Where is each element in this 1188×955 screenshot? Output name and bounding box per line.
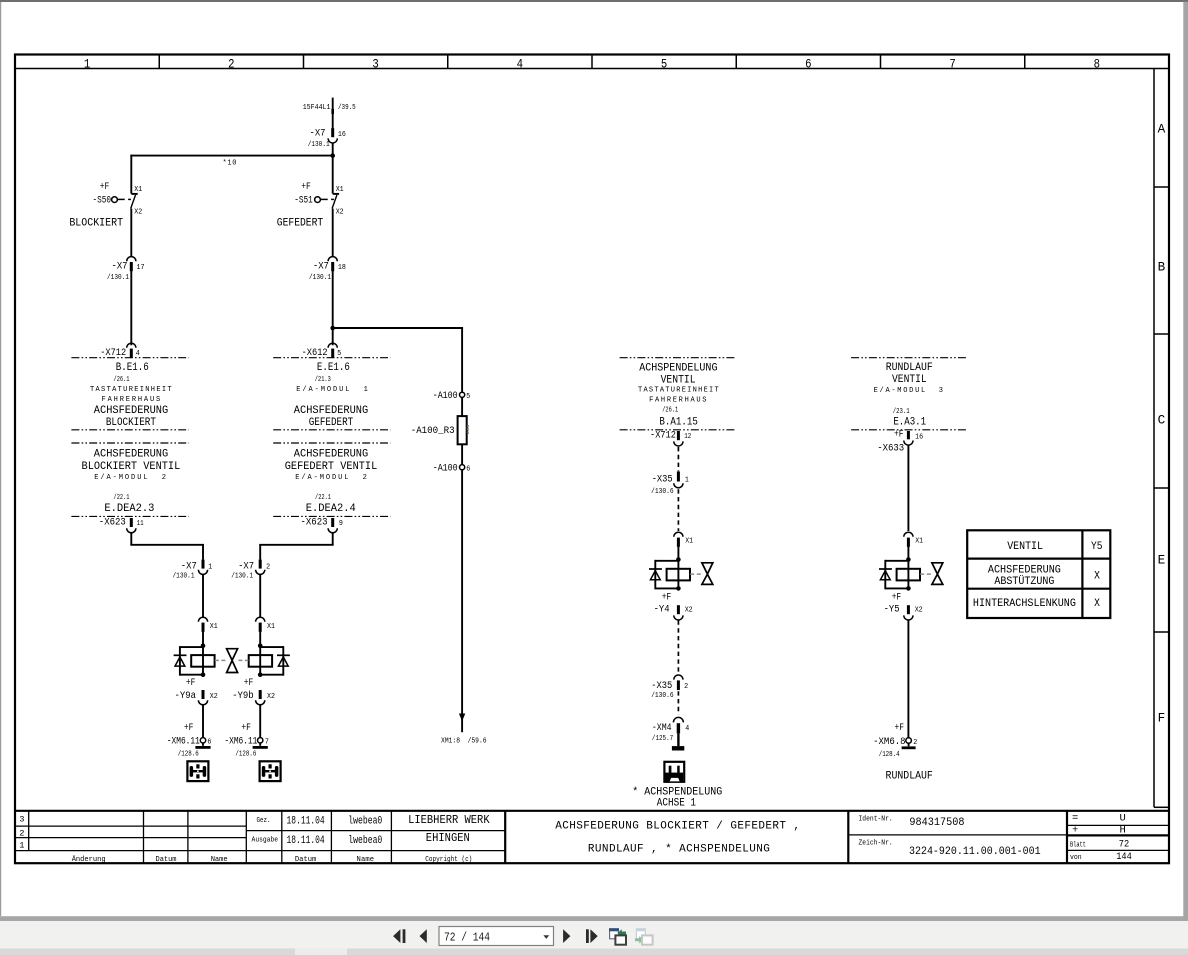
svg-text:-X35: -X35 [651,680,672,692]
viewer left edge line [0,2,1,916]
svg-text:18.11.04: 18.11.04 [287,835,325,847]
svg-text:-X633: -X633 [877,443,904,455]
svg-text:*10: *10 [223,159,237,167]
svg-text:Änderung: Änderung [72,855,106,864]
svg-text:+F: +F [895,722,905,734]
page number box 72 / 144 [439,927,554,946]
axle symbol under -XM6.11:7 [260,761,281,781]
svg-text:-S50: -S50 [93,195,112,207]
device terminal -A100:5 [433,390,471,402]
svg-text:-X7: -X7 [112,260,128,272]
svg-text:+F: +F [301,181,311,193]
svg-text:XM1:8 /59.6: XM1:8 /59.6 [441,737,487,745]
svg-text:12: 12 [684,433,691,441]
svg-text:ACHSFEDERUNG: ACHSFEDERUNG [94,448,168,460]
svg-text:LIEBHERR WERK: LIEBHERR WERK [408,814,490,827]
viewer toolbar background [0,921,1188,949]
svg-text:5: 5 [337,350,341,358]
company name LIEBHERR WERK EHINGEN [408,814,490,845]
valve coil -Y9a with suppressor diode [174,644,215,678]
svg-text:B.A1.15: B.A1.15 [659,416,698,428]
svg-text:+F: +F [186,677,196,689]
svg-text:U: U [1119,813,1125,825]
svg-text:Ausgabe: Ausgabe [252,837,279,845]
svg-text:Datum: Datum [156,856,177,864]
dashed wire -X712:12 to -X35:1 [677,447,679,471]
svg-text:+F: +F [892,592,902,604]
module boundary dash-dot line row 1 [71,357,967,359]
module E.A3.1 RUNDLAUF text block [874,362,943,428]
svg-text:X2: X2 [685,607,693,615]
svg-text:RUNDLAUF , * ACHSPENDELUNG: RUNDLAUF , * ACHSPENDELUNG [588,844,770,856]
svg-text:EHINGEN: EHINGEN [426,832,470,845]
valve coil -Y5 with suppressor diode [879,557,920,591]
top ruler column numbers 1-8 [84,56,1100,71]
svg-text:-X35: -X35 [652,474,673,486]
svg-text:Gez.: Gez. [257,817,271,825]
svg-text:E.E1.6: E.E1.6 [317,362,350,374]
svg-text:+F: +F [894,428,904,440]
svg-text:2: 2 [228,56,234,71]
svg-text:Name: Name [211,856,228,864]
valve -Y5 X2 terminal [904,605,923,620]
switch -S50 (pushbutton contact) [69,181,142,230]
connector -X7 pin 17 [107,257,145,282]
svg-text:+F: +F [100,181,110,193]
svg-text:-Y9a: -Y9a [175,690,197,702]
svg-text:X1: X1 [915,537,923,545]
junction node at bus split [330,153,335,158]
svg-text:-X612: -X612 [302,347,328,359]
net label 15F44L1 /39.5 [303,104,356,112]
connector -X712 pin 12 [650,430,691,446]
svg-text:-X623: -X623 [99,517,126,529]
wire -A100:6 down to off-page arrow XM1:8 [441,470,487,746]
wire bus down to switch -S50 [130,155,132,194]
hydraulic throttle symbol Y5 [932,563,943,585]
connector -X633 pin 16 [877,428,923,454]
wire resistor to -A100:6 [461,444,463,464]
previous page button [420,929,427,943]
svg-text:VENTIL: VENTIL [1007,541,1043,553]
svg-text:2: 2 [266,564,270,572]
Ident-Nr field [859,816,965,829]
svg-text:8R2: 8R2 [464,425,471,435]
svg-text:16: 16 [338,131,346,139]
svg-text:1: 1 [208,564,212,572]
svg-text:ACHSFEDERUNG: ACHSFEDERUNG [294,405,368,417]
svg-text:1: 1 [84,56,91,71]
wire X1 to coil -Y9b [259,631,261,645]
svg-text:+F: +F [241,722,251,734]
svg-text:6: 6 [207,738,211,746]
connector -X35 pin 1 [651,472,689,496]
svg-text:TASTATUREINHEIT: TASTATUREINHEIT [638,386,719,394]
title block header labels [72,817,473,864]
module boundary dash-dot line row 3 [71,442,390,444]
svg-text:3224-920.11.00.001-001: 3224-920.11.00.001-001 [909,846,1041,858]
wire -Y9a X2 to -XM6.11:6 [202,705,204,738]
plug -XM6.8 pin 2 with ground [873,722,917,759]
horizontal bus wire *10 [130,156,332,168]
last page button [586,929,598,943]
wire X1 to coil -Y4 [677,546,679,559]
label RUNDLAUF [886,770,933,782]
drawing title text [555,820,800,855]
svg-text:X1: X1 [336,186,344,194]
svg-text:7: 7 [949,56,955,71]
svg-text:FAHRERHAUS: FAHRERHAUS [649,397,706,405]
svg-text:/128.6: /128.6 [235,750,256,758]
wire from net 15F44L1 down to connector -X7:16 [331,98,334,129]
wire -X623:9 jog to -X7:2 [259,533,333,560]
svg-text:H: H [1119,824,1125,836]
svg-text:GEFEDERT: GEFEDERT [277,218,324,230]
date and name entries [287,815,383,847]
svg-text:ABSTÜTZUNG: ABSTÜTZUNG [994,575,1054,588]
svg-text:-A100: -A100 [433,390,458,402]
module B.A1.15 ACHSPENDELUNG text block [638,362,719,428]
svg-text:17: 17 [137,264,145,272]
svg-text:Name: Name [357,856,375,864]
svg-text:72: 72 [1119,838,1129,850]
ground symbol under -XM4 [672,733,684,750]
svg-text:1: 1 [19,841,24,851]
right ruler strip line [1154,69,1169,808]
svg-text:6: 6 [805,56,811,71]
svg-text:16: 16 [915,434,923,442]
branch wire to -A100 resistor column [333,328,463,392]
svg-text:F: F [1158,710,1166,725]
svg-text:18.11.04: 18.11.04 [287,815,325,827]
revision numbers 3 2 1 [19,815,24,851]
wire -S51 X2 to -X7:18 [332,209,334,257]
module boundary dash-dot line row 2 [71,429,967,431]
svg-text:+F: +F [662,592,672,604]
svg-text:GEFEDERT: GEFEDERT [309,417,354,429]
module B.E1.6 text block [90,362,172,429]
svg-text:B.E1.6: B.E1.6 [116,362,149,374]
valve -Y4 labels [654,592,672,616]
svg-text:2: 2 [684,683,688,691]
svg-text:RUNDLAUF: RUNDLAUF [886,362,933,374]
svg-text:5: 5 [661,56,667,71]
valve -Y9a X2 terminal [198,690,217,705]
svg-text:RUNDLAUF: RUNDLAUF [886,770,933,782]
module E.DEA2.4 text block [285,448,378,515]
module boundary dash-dot line row 4 [71,515,390,517]
junction node to resistor branch [330,326,335,331]
viewer right scrollbar strip [1183,2,1188,921]
oscillating axle symbol ACHSPENDELUNG [664,762,684,782]
wire -X7:17 down to -X712:4 [130,271,132,345]
first page button [393,929,405,943]
valve function table [967,530,1110,618]
svg-text:-Y4: -Y4 [654,604,670,616]
svg-text:Datum: Datum [295,856,317,864]
next page button [563,929,570,943]
valve -Y5 X1 terminal [904,532,923,547]
svg-text:ACHSPENDELUNG: ACHSPENDELUNG [639,362,717,374]
dashed wire -X35:1 to valve -Y4 X1 [677,489,679,531]
wire -Y9b X2 to -XM6.11:7 [259,705,261,738]
svg-text:/130.1: /130.1 [308,141,330,149]
connector -X7 pin 1 [173,560,213,581]
svg-text:X2: X2 [915,607,923,615]
svg-text:-X712: -X712 [650,430,676,442]
svg-text:X2: X2 [210,693,218,701]
svg-text:Ident-Nr.: Ident-Nr. [859,816,893,824]
valve -Y9b labels [232,677,254,702]
svg-text:-X7: -X7 [238,561,254,573]
svg-text:-X623: -X623 [301,517,328,529]
svg-text:4: 4 [136,350,140,358]
svg-text:FAHRERHAUS: FAHRERHAUS [102,396,161,404]
svg-text:/21.3: /21.3 [315,376,331,384]
svg-text:15F44L1: 15F44L1 [303,104,331,112]
svg-text:=: = [1072,813,1078,825]
svg-text:+F: +F [244,677,254,689]
viewer status bar [0,949,1188,955]
svg-text:Zeich-Nr.: Zeich-Nr. [859,840,893,848]
svg-text:4: 4 [685,725,689,733]
wire -X633:16 to valve -Y5 X1 [907,446,909,531]
axle symbol under -XM6.11:6 [187,761,208,781]
valve -Y9b X2 terminal [256,690,275,705]
svg-text:VENTIL: VENTIL [892,374,927,386]
svg-text:-Y5: -Y5 [884,604,900,616]
wire junction down to switch -S51 [332,156,334,194]
svg-text:+F: +F [184,722,194,734]
svg-text:ACHSFEDERUNG: ACHSFEDERUNG [294,448,368,460]
svg-text:Copyright (c): Copyright (c) [425,856,472,864]
resistor -A100_R3 [411,416,471,444]
viewer bottom gray band [0,916,1188,921]
svg-text:-X712: -X712 [100,347,126,359]
valve coil -Y9b with suppressor diode [249,644,290,678]
svg-text:/39.5: /39.5 [338,104,356,112]
wire X1 to coil -Y5 [907,546,909,559]
svg-text:11: 11 [137,520,144,528]
svg-text:X1: X1 [267,623,275,631]
svg-text:984317508: 984317508 [909,817,964,829]
svg-text:/23.1: /23.1 [893,408,910,416]
svg-text:E.A3.1: E.A3.1 [893,416,926,428]
svg-text:von: von [1070,854,1082,862]
mechanical link dashed line Y4 [690,573,701,575]
svg-text:/22.1: /22.1 [114,494,130,502]
svg-text:E.DEA2.3: E.DEA2.3 [104,503,154,515]
svg-text:72 / 144: 72 / 144 [444,930,490,944]
svg-text:18: 18 [338,264,346,272]
svg-text:/130.1: /130.1 [309,274,331,282]
svg-text:E.DEA2.4: E.DEA2.4 [306,503,356,515]
svg-text:-X7: -X7 [310,127,326,139]
switch -S51 (pushbutton contact) [277,181,344,230]
svg-text:X1: X1 [685,537,693,545]
valve -Y9b X1 terminal [256,617,275,632]
svg-text:-XM4: -XM4 [652,722,672,734]
svg-text:-XM6.11: -XM6.11 [224,735,257,747]
connector -X7 pin 2 [231,560,270,581]
svg-text:C: C [1158,412,1166,427]
svg-text:B: B [1158,259,1166,274]
svg-text:/26.1: /26.1 [114,376,130,384]
wire -X7:16 to junction [332,143,334,156]
top ruler column ticks [159,55,1025,69]
wire -Y5 X2 to -XM6.8:2 [907,620,909,738]
svg-text:GEFEDERT VENTIL: GEFEDERT VENTIL [285,461,378,473]
module E.DEA2.3 text block [82,448,181,515]
wire -X623:11 jog to -X7:1 [130,533,204,560]
wire -X7:18 to junction at branch [332,271,334,345]
svg-text:2: 2 [913,739,917,747]
svg-text:/128.4: /128.4 [879,751,900,759]
svg-text:-Y9b: -Y9b [232,690,254,702]
valve -Y4 X1 terminal [674,532,693,547]
dashed wire -Y4 X2 to -X35:2 [677,620,679,674]
svg-text:lwebea0: lwebea0 [348,835,382,847]
svg-text:X2: X2 [336,209,344,217]
viewer top edge strip [0,0,1188,2]
valve -Y5 labels [884,592,902,616]
right ruler row ticks [1154,187,1169,632]
Zeich-Nr field [859,840,1041,858]
connector -X712 pin 4 [100,343,140,359]
hydraulic throttle symbol between Y9a and Y9b [227,649,238,673]
wire -S50 X2 to -X7:17 [130,209,132,257]
right ruler row letters [1158,121,1166,725]
connector -X623 pin 9 [301,517,343,533]
svg-text:4: 4 [517,56,524,71]
svg-text:HINTERACHSLENKUNG: HINTERACHSLENKUNG [973,598,1076,610]
svg-text:VENTIL: VENTIL [661,374,696,386]
svg-text:+: + [1072,824,1078,836]
svg-text:-S51: -S51 [294,195,313,207]
svg-text:/130.6: /130.6 [651,692,674,700]
svg-text:9: 9 [339,520,343,528]
svg-text:8: 8 [1094,56,1100,71]
label ACHSPENDELUNG ACHSE 1 [632,787,722,810]
sheet info table [1070,813,1132,863]
svg-text:A: A [1158,121,1166,136]
svg-text:5: 5 [466,393,470,401]
svg-text:-XM6.8: -XM6.8 [873,736,906,748]
svg-text:Y5: Y5 [1091,541,1103,553]
svg-text:ACHSFEDERUNG BLOCKIERT / GEFED: ACHSFEDERUNG BLOCKIERT / GEFEDERT , [555,820,800,832]
title block grid [15,811,1169,863]
wire -A100:5 to resistor R3 [461,398,463,417]
dashed wire -X35:2 to -XM4:4 [677,691,679,715]
module E.E1.6 text block [294,362,368,429]
svg-text:X: X [1094,570,1100,582]
svg-text:E: E [1158,552,1166,567]
svg-text:1: 1 [685,477,689,485]
svg-text:7: 7 [265,738,269,746]
svg-text:X: X [1094,598,1100,610]
svg-text:Blatt: Blatt [1070,841,1086,849]
svg-text:X1: X1 [210,623,218,631]
previous view button [609,928,626,944]
connector -X7 pin 18 [309,257,346,282]
svg-text:3: 3 [372,56,378,71]
device terminal -A100:6 [433,462,471,474]
svg-text:ACHSFEDERUNG: ACHSFEDERUNG [94,405,168,417]
svg-text:ACHSFEDERUNG: ACHSFEDERUNG [988,565,1061,577]
valve -Y4 X2 terminal [674,605,693,620]
wire -X7:1 to valve -Y9a X1 [202,574,204,617]
svg-text:/130.6: /130.6 [651,488,674,496]
svg-text:/128.6: /128.6 [178,750,199,758]
svg-text:TASTATUREINHEIT: TASTATUREINHEIT [90,386,172,394]
valve coil -Y4 with suppressor diode [649,557,690,591]
valve -Y9a labels [175,677,197,702]
svg-text:-X7: -X7 [313,260,329,272]
mechanical link dashed line Y5 [920,573,931,575]
plug -XM6.11 pin 6 with ground [167,722,212,759]
next view button (disabled) [635,928,653,944]
svg-text:-XM6.11: -XM6.11 [167,735,200,747]
valve -Y9a X1 terminal [198,617,217,632]
connector -X612 pin 5 [302,343,342,359]
wire X1 to coil -Y9a [202,631,204,645]
plug -XM4 pin 4 [652,717,689,742]
svg-text:/22.1: /22.1 [315,494,331,502]
svg-text:-A100: -A100 [433,462,458,474]
svg-text:/125.7: /125.7 [652,735,673,743]
svg-text:X2: X2 [134,209,142,217]
svg-text:-A100_R3: -A100_R3 [411,425,455,437]
svg-text:X2: X2 [267,693,275,701]
svg-text:BLOCKIERT: BLOCKIERT [106,417,156,429]
svg-text:BLOCKIERT: BLOCKIERT [69,218,123,230]
svg-text:BLOCKIERT VENTIL: BLOCKIERT VENTIL [82,461,181,473]
plug -XM6.11 pin 7 with ground [224,722,269,759]
svg-text:/130.1: /130.1 [231,572,253,580]
connector -X7 pin 16 [308,127,346,149]
svg-text:-X7: -X7 [181,561,197,573]
svg-text:3: 3 [19,815,24,825]
svg-text:2: 2 [19,828,24,838]
svg-text:/130.1: /130.1 [173,572,195,580]
svg-text:6: 6 [466,465,470,473]
svg-text:144: 144 [1116,851,1132,863]
svg-text:/26.1: /26.1 [662,406,678,414]
wire -X7:2 to valve -Y9b X1 [259,574,261,617]
connector -X623 pin 11 [99,517,144,533]
top ruler line [15,68,1169,70]
mechanical link dashed line Y9a-Y9b [215,659,249,661]
svg-text:X1: X1 [134,186,142,194]
hydraulic throttle symbol Y4 [702,563,713,585]
svg-text:/130.1: /130.1 [107,274,129,282]
connector -X35 pin 2 [651,675,688,700]
svg-text:ACHSE 1: ACHSE 1 [657,798,697,810]
svg-text:lwebea0: lwebea0 [348,815,382,827]
